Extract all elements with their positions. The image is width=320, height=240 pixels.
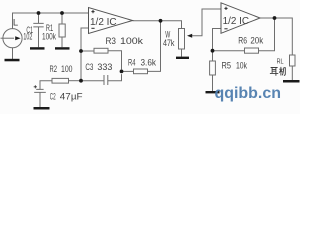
resistor R6 body	[245, 48, 259, 53]
capacitor C3 plates	[104, 75, 108, 85]
resistor R4 body	[134, 69, 148, 74]
wire op-amp U2 output to RL top	[260, 18, 292, 55]
svg-text:qqibb.cn: qqibb.cn	[215, 85, 282, 102]
svg-text:1/2 IC: 1/2 IC	[90, 17, 117, 28]
op-amp U2 plus marker	[224, 7, 227, 10]
wire node D to R6 left	[213, 50, 245, 52]
ground under C1	[30, 47, 45, 49]
label headphone (Chinese ErJi) drawn strokes	[270, 67, 285, 76]
svg-text:R5: R5	[222, 61, 232, 71]
wire input rail from source to op-amp U1 + input	[13, 13, 89, 29]
pot W wiper arrowhead	[187, 34, 192, 38]
resistor R3 body	[94, 48, 108, 53]
potentiometer W body	[179, 29, 185, 50]
wire node B to C3 left plate	[81, 80, 104, 82]
junction dot U1 output feedback	[159, 19, 163, 23]
capacitor C1 plates	[33, 23, 43, 27]
wire op-amp U1 inverting input to node A	[81, 28, 89, 51]
wire RL bottom to ground	[291, 66, 293, 80]
resistor RL body	[290, 55, 296, 66]
svg-text:3.6k: 3.6k	[141, 58, 157, 68]
ground under RL	[283, 80, 300, 83]
svg-text:1/2 IC: 1/2 IC	[223, 16, 249, 27]
source arrow line	[1, 37, 15, 39]
resistor R5 body	[210, 61, 216, 75]
wire junction C to R4 left	[122, 70, 134, 72]
svg-text:100k: 100k	[120, 36, 144, 46]
svg-text:47k: 47k	[163, 38, 175, 48]
wire source bottom stub to ground	[12, 48, 14, 59]
svg-text:47µF: 47µF	[60, 91, 83, 101]
svg-text:L: L	[13, 17, 18, 28]
junction dot node C	[120, 70, 124, 74]
wire op-amp U2 inverting input to node D	[213, 29, 222, 51]
wire op-amp U1 output to pot W top	[133, 21, 182, 29]
wire node A to R3 left	[81, 50, 94, 52]
junction dot node D	[211, 49, 215, 53]
svg-text:102: 102	[23, 32, 32, 42]
junction dot node B	[79, 79, 83, 83]
ground under C2	[34, 107, 50, 110]
ground under pot W	[176, 57, 189, 59]
junction dot R1 rail	[60, 11, 64, 15]
capacitor C2 polarity plus	[34, 85, 37, 88]
wire C1 bottom stub to ground	[38, 27, 40, 47]
ground under R1	[55, 47, 70, 49]
svg-text:C3: C3	[85, 62, 93, 72]
wire R2 left to C2 riser	[40, 81, 52, 90]
source L circle	[3, 29, 22, 48]
op-amp U1 plus marker	[91, 10, 94, 13]
resistor R1 body	[59, 24, 65, 37]
wire C2 bottom stub to ground	[39, 93, 41, 108]
wire node D down to R5 top	[212, 51, 214, 61]
wire R2 right to node B	[69, 80, 82, 82]
resistor R2 body	[52, 78, 69, 83]
wire R5 bottom to ground	[212, 75, 214, 91]
op-amp U2 triangle	[221, 3, 260, 34]
wire R6 right to feedback riser up to output	[259, 18, 275, 51]
wire R4 right to feedback riser	[148, 21, 161, 71]
wire pot W wiper to op-amp U2 + input	[192, 9, 221, 36]
ground under R5	[206, 91, 220, 93]
svg-text:10k: 10k	[236, 61, 247, 71]
svg-text:100: 100	[61, 64, 73, 74]
svg-text:RL: RL	[277, 57, 284, 66]
svg-text:20k: 20k	[250, 35, 263, 45]
svg-text:R6: R6	[238, 35, 247, 45]
svg-text:R2: R2	[50, 64, 58, 74]
op-amp U1 triangle	[89, 8, 133, 34]
wire node A down to R2/C3 row	[80, 51, 82, 81]
wire pot W bottom to ground	[181, 49, 183, 57]
junction dot C1 rail	[37, 11, 41, 15]
op-amp U2 minus marker	[224, 28, 227, 30]
svg-text:R3: R3	[106, 36, 117, 46]
junction dot U2 output feedback	[273, 16, 277, 20]
source arrowhead	[15, 36, 20, 40]
wire C1 top stub	[38, 13, 40, 23]
svg-text:100k: 100k	[42, 32, 56, 42]
wire R1 top stub	[61, 13, 63, 24]
capacitor C2 plates	[34, 89, 46, 92]
svg-text:C2: C2	[50, 91, 56, 101]
wire C3 right plate to junction C riser	[108, 74, 122, 81]
svg-text:333: 333	[97, 62, 112, 72]
svg-text:R4: R4	[128, 58, 136, 68]
op-amp U1 minus marker	[91, 27, 94, 29]
wire R1 bottom stub to ground	[61, 37, 63, 47]
junction dot node A	[79, 49, 83, 53]
wire R3 right to junction above R4	[108, 51, 122, 70]
ground under source	[5, 59, 20, 62]
